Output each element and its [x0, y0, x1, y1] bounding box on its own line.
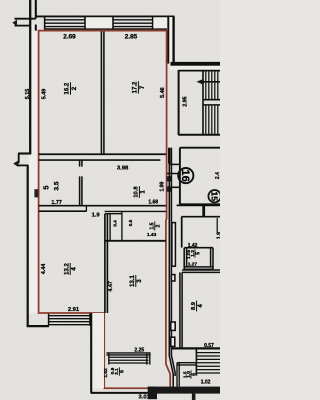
room 7 label	[133, 81, 146, 94]
closet dividers	[110, 211, 122, 240]
top facade bottom line	[44, 28, 167, 30]
bottom wall foot	[148, 387, 157, 400]
top facade cap line	[35, 15, 174, 17]
hall (room 1) label	[134, 186, 147, 198]
duct rect small 1	[171, 275, 175, 281]
closet 2 label	[149, 221, 161, 230]
bottom stub wall	[192, 394, 196, 400]
exterior wall left outer line (lower)	[27, 165, 29, 327]
pier white box top middle	[86, 17, 112, 28]
mid-left zigzag wall	[18, 152, 31, 154]
exterior wall top-right horizontal (thick)	[171, 62, 221, 66]
stairwell box	[178, 70, 220, 72]
duct rect tall on corridor wall	[172, 223, 176, 267]
room4/room3 divider wall (double)	[105, 214, 108, 313]
room 2 label	[65, 82, 78, 95]
apartment number 15 (circled)	[208, 190, 220, 202]
room 3 label	[130, 275, 143, 287]
corridor wall east of apartment (double, slanting at bottom)	[169, 148, 173, 387]
pier white box top right	[153, 17, 166, 28]
apt15 south wall	[172, 347, 221, 349]
thick west wall of lower wing	[92, 313, 104, 388]
bathroom duct mark	[34, 189, 38, 197]
apt15 bathroom box	[184, 248, 213, 270]
bathroom east wall (double with door gap)	[80, 160, 82, 206]
hall north wall	[39, 153, 166, 155]
stair direction arrow	[200, 81, 221, 83]
stair treads lower flight	[206, 105, 221, 135]
door jamb marks on red line	[167, 176, 172, 181]
red apartment outline	[39, 31, 171, 389]
lower stairs	[195, 349, 197, 375]
exterior wall left outer line (top)	[29, 0, 31, 154]
jog wall right of hall	[169, 148, 171, 164]
window W1 glazing	[45, 20, 85, 27]
loggia window band	[106, 353, 150, 355]
apt15 hall walls	[177, 204, 220, 206]
room3 north wall	[105, 240, 166, 242]
apartment number 16 (circled)	[178, 168, 193, 183]
landing sliver white	[170, 66, 220, 70]
small lobby box bottom-right	[177, 363, 179, 387]
window W2 end ticks	[113, 16, 153, 29]
stair landing divider	[202, 71, 204, 135]
bathroom south / room4 north wall	[39, 205, 167, 207]
stair treads upper flight	[206, 71, 221, 99]
duct rect small 3	[171, 337, 175, 346]
apt15 room west wall	[180, 272, 182, 348]
duct rect small 2	[171, 322, 175, 330]
wall branch left top (double line)	[15, 18, 36, 20]
window W1 end ticks	[45, 16, 85, 29]
exterior wall left inner line (top stub)	[35, 0, 37, 31]
break notch mid-left	[13, 160, 18, 167]
window W2 glazing	[113, 20, 153, 27]
apt15 wall below bathroom	[182, 270, 220, 272]
elevator hall box	[180, 148, 220, 205]
room 4 label	[64, 263, 77, 275]
break notch top-left	[12, 20, 17, 27]
wall fill left exterior (white)	[31, 24, 38, 154]
wall fill right top corner	[168, 17, 174, 64]
apt15 room label 4 / 8.9	[191, 301, 204, 312]
bottom window of room 4	[49, 316, 90, 325]
interior wall between rooms 2 and 7 (double)	[100, 31, 102, 154]
bottom wall thin left part	[91, 392, 148, 394]
stair mid rails	[203, 100, 220, 105]
bottom thick exterior wall	[148, 387, 220, 394]
door stubs corridor	[167, 174, 180, 188]
mid-left lower ledge	[18, 164, 28, 166]
exterior wall bottom-left ledge	[27, 325, 49, 327]
exterior wall NE corner vertical	[167, 17, 169, 64]
